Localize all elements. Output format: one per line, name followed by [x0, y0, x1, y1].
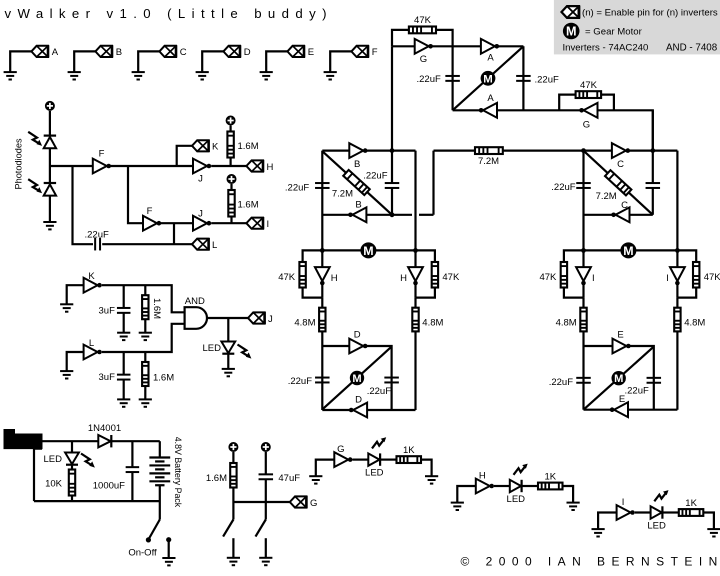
- label 4.8M (x=322.3): [294, 317, 315, 328]
- svg-text:47uF: 47uF: [278, 473, 300, 484]
- photodiode D2: [44, 183, 56, 196]
- photodiode D1: [44, 136, 56, 149]
- wire C mid vertical lower: [652, 188, 654, 215]
- legend inverters text: [563, 42, 649, 53]
- label J1: [198, 174, 203, 185]
- svg-text:F: F: [147, 206, 153, 217]
- svg-text:1.6M: 1.6M: [151, 298, 162, 319]
- wire E top line: [584, 346, 654, 410]
- wire 1K to ground I LED cell: [703, 513, 714, 530]
- title text: [5, 6, 333, 21]
- legend gear motor symbol: [563, 23, 580, 40]
- wire power to resistor 1.6M (I): [230, 184, 232, 190]
- svg-text:1K: 1K: [544, 471, 556, 482]
- wire stub to ground left: [232, 538, 234, 558]
- ground output H LED cell: [567, 503, 580, 510]
- label C2: [621, 200, 628, 211]
- wire ground to inverter I LED cell: [598, 513, 617, 530]
- svg-text:47K: 47K: [580, 80, 598, 91]
- wire D bottom line: [322, 409, 415, 411]
- svg-text:3uF: 3uF: [99, 372, 116, 383]
- enable pin L: [192, 238, 209, 250]
- enable pin B: [95, 45, 112, 57]
- label .22uF (B mid): [363, 171, 387, 182]
- wire 47K loop (677.4): [677, 250, 696, 262]
- LED (I LED cell): [651, 506, 663, 518]
- wire D left vertical: [321, 346, 323, 410]
- inverter C1: [612, 143, 630, 158]
- svg-text:M: M: [363, 244, 373, 258]
- wire C left vertical: [582, 151, 584, 251]
- wire D1 to D2: [49, 148, 51, 183]
- ground for enable E: [260, 72, 273, 79]
- ground for enable F: [324, 72, 337, 79]
- label On-Off: [128, 547, 157, 558]
- wire inverter to LED G LED cell: [353, 459, 369, 461]
- label .22uF (D right): [367, 386, 391, 397]
- capacitor .22uF (D left): [315, 378, 330, 383]
- wire motor rail right: [584, 249, 678, 251]
- label D1: [354, 330, 361, 341]
- motor M (A-block): [481, 71, 496, 86]
- wire to 1.6M K: [144, 285, 146, 295]
- svg-text:7.2M: 7.2M: [332, 189, 353, 200]
- inverter B1: [349, 143, 367, 158]
- inverter I (down, x=677.4): [670, 267, 685, 285]
- wire LED J to ground: [227, 354, 229, 369]
- resistor 47K (branch x=322.3): [299, 262, 305, 288]
- label 1.6M (G): [206, 473, 227, 484]
- resistor 47K (G1 feedback): [409, 27, 436, 34]
- label 3uF (L): [99, 372, 116, 383]
- enable pin K: [192, 140, 209, 152]
- capacitor 1000uF: [126, 467, 139, 472]
- svg-text:On-Off: On-Off: [128, 547, 157, 558]
- svg-text:.22uF: .22uF: [85, 230, 109, 241]
- LED (G LED cell): [368, 453, 380, 465]
- enable pin J: [248, 312, 265, 324]
- wire power to resistor 1.6M (H): [230, 126, 232, 132]
- resistor 4.8M (x=677.4): [674, 308, 680, 332]
- light arrow into D2: [28, 179, 42, 193]
- capacitor .22uF (D right): [384, 378, 399, 383]
- copyright text: [461, 554, 720, 568]
- label .22uF (photodiode): [85, 230, 109, 241]
- label 4.8M (x=677.4): [684, 317, 705, 328]
- wire stub to ground right: [265, 538, 267, 558]
- label 1.6M (K) rotated: [151, 298, 162, 319]
- label B: [116, 47, 122, 58]
- inverter E2 (left-pointing): [610, 402, 628, 417]
- switch On-Off blade: [149, 520, 160, 539]
- label D: [244, 47, 251, 58]
- capacitor 47uF: [259, 474, 274, 479]
- capacitor .22uF (B mid): [385, 183, 400, 188]
- wire rail to inverter (I branch 677.4): [676, 250, 678, 267]
- enable pin D: [223, 45, 240, 57]
- diode 1N4001: [98, 435, 111, 447]
- battery 4.8V pack: [149, 458, 170, 486]
- ground 1.6M K: [139, 333, 152, 340]
- wire 47K loop right (G2): [601, 95, 614, 111]
- svg-text:1N4001: 1N4001: [88, 423, 121, 434]
- ground input G LED cell: [309, 476, 322, 483]
- inverter B2 (left-pointing): [348, 207, 366, 222]
- node dot C left: [581, 148, 586, 153]
- svg-text:J: J: [268, 314, 273, 325]
- svg-text:B: B: [355, 200, 361, 211]
- wire 47K loop bottom (322.3): [303, 288, 323, 298]
- svg-text:(n) = Enable pin for (n) inve: (n) = Enable pin for (n) inverters: [582, 7, 718, 18]
- wire LED to 1K H LED cell: [522, 485, 538, 487]
- svg-text:3uF: 3uF: [99, 305, 116, 316]
- wire LED to 10K: [71, 465, 73, 470]
- wire rail to inverter (H branch 415.5): [414, 250, 416, 267]
- wire branch down to LED (power): [71, 441, 73, 452]
- label .22uF (A left): [417, 74, 441, 85]
- ground for enable B: [68, 72, 81, 79]
- svg-text:M: M: [483, 73, 493, 85]
- light arrow LED J: [238, 345, 252, 359]
- wire B right vertical to rail: [414, 151, 416, 251]
- svg-text:= Gear Motor: = Gear Motor: [585, 26, 643, 37]
- inverter I (I LED cell): [617, 505, 635, 520]
- label 1.6M (I pull): [238, 200, 259, 211]
- wire A-block left vertical: [452, 46, 454, 110]
- label 10K: [45, 479, 63, 490]
- label H (H LED cell): [479, 471, 486, 482]
- ground switch left: [227, 558, 240, 565]
- wire inverter to LED I LED cell: [635, 511, 651, 513]
- svg-text:4.8M: 4.8M: [684, 317, 705, 328]
- label 7.2M (C): [596, 191, 617, 202]
- label B1: [354, 159, 360, 170]
- wire branch down to LED (J): [227, 318, 229, 342]
- ground photodiodes: [43, 222, 56, 229]
- wire D2 to ground: [49, 196, 51, 222]
- svg-text:I: I: [622, 497, 625, 508]
- capacitor 3uF (L): [117, 375, 131, 380]
- label E1: [617, 330, 623, 341]
- enable pin I: [246, 217, 263, 229]
- label E2: [619, 394, 625, 405]
- wire C diagonal: [584, 151, 653, 215]
- label H (x=322.3): [331, 273, 338, 284]
- svg-text:M: M: [614, 373, 623, 385]
- wire B top line: [322, 150, 415, 152]
- wire C mid vertical upper: [652, 151, 654, 183]
- label 1K (H LED cell): [544, 471, 556, 482]
- resistor 47K (branch x=677.4): [693, 262, 699, 288]
- inverter J2: [193, 216, 211, 231]
- wire battery bottom: [159, 485, 161, 519]
- svg-text:.22uF: .22uF: [288, 376, 312, 387]
- resistor 4.8M (x=322.3): [319, 308, 325, 332]
- wire node to 4.8M (583.5): [582, 298, 584, 308]
- label 1000uF: [93, 481, 125, 492]
- wire to enable F: [330, 51, 351, 72]
- inverter D1: [349, 339, 367, 354]
- wire junction down-left to .22uF: [73, 166, 94, 244]
- light arrow into D1: [28, 132, 42, 146]
- label H (x=415.5): [400, 273, 407, 284]
- wire A-block bottom line: [453, 110, 653, 150]
- motor M (E-block): [612, 371, 626, 385]
- wire 47K loop bottom (583.5): [564, 288, 584, 298]
- ground L input: [60, 371, 73, 378]
- wire to enable B: [74, 51, 95, 72]
- ground input I LED cell: [592, 529, 605, 536]
- wire 47K loop bottom (677.4): [677, 288, 696, 298]
- svg-text:7.2M: 7.2M: [596, 191, 617, 202]
- label 1.6M (L): [153, 373, 174, 384]
- wire LED to 1K G LED cell: [381, 459, 397, 461]
- wire power to 47uF: [265, 452, 267, 474]
- wire feed vertical G1 to B: [391, 46, 393, 150]
- svg-text:D: D: [355, 394, 362, 405]
- wire to battery top: [159, 441, 161, 457]
- wire A-block right vertical: [522, 46, 524, 110]
- wire A-block diagonal: [453, 46, 524, 110]
- svg-text:F: F: [372, 47, 378, 58]
- svg-text:47K: 47K: [539, 272, 557, 283]
- svg-text:F: F: [99, 149, 105, 160]
- legend enable-pin symbol: [562, 6, 579, 19]
- wire 47K loop bottom (415.5): [416, 288, 435, 298]
- svg-text:K: K: [212, 142, 219, 153]
- wire to enable D: [202, 51, 223, 72]
- svg-text:G: G: [310, 498, 317, 509]
- LED (H LED cell): [510, 480, 522, 492]
- svg-text:C: C: [617, 159, 624, 170]
- wire 1.6M G down: [232, 488, 234, 503]
- wire rail to inverter (I branch 583.5): [582, 250, 584, 267]
- resistor 47K (branch x=415.5): [432, 262, 438, 288]
- resistor 1.6M (L): [142, 362, 148, 386]
- label A2: [487, 93, 494, 104]
- power symbol photodiodes: [45, 101, 55, 111]
- label .22uF (E right): [625, 385, 649, 396]
- svg-text:1K: 1K: [403, 445, 415, 456]
- wire 47K loop (322.3): [303, 250, 323, 262]
- label L inv: [89, 338, 94, 349]
- label C1: [617, 159, 624, 170]
- resistor 7.2M (B diagonal): [343, 170, 369, 195]
- wire to enable G: [233, 501, 289, 503]
- svg-text:C: C: [180, 47, 187, 58]
- wire to enable E: [266, 51, 287, 72]
- svg-text:I: I: [666, 273, 669, 284]
- LED (power indicator): [65, 453, 79, 465]
- wire left return: [34, 449, 42, 502]
- wire B diagonal: [322, 151, 392, 215]
- ground switch right: [259, 558, 272, 565]
- light arrow (G LED cell): [372, 437, 386, 448]
- wire rail to inverter (H branch 322.3): [321, 250, 323, 267]
- svg-text:J: J: [198, 209, 203, 220]
- svg-text:J: J: [198, 174, 203, 185]
- wire diode to battery: [111, 440, 159, 442]
- inverter K: [84, 278, 102, 293]
- svg-text:4.8M: 4.8M: [422, 317, 443, 328]
- inverter J1: [193, 159, 211, 174]
- label 1K (I LED cell): [685, 498, 697, 509]
- label .22uF (B left): [285, 182, 309, 193]
- svg-text:A: A: [487, 53, 494, 64]
- inverter F1: [93, 159, 111, 174]
- svg-text:I: I: [592, 273, 595, 284]
- switch contact dot 2: [166, 537, 171, 542]
- label LED (I LED cell): [647, 521, 666, 532]
- inverter E1: [613, 339, 631, 354]
- wire inverter to node (415.5): [414, 285, 416, 298]
- wire 47K loop (583.5): [564, 250, 584, 262]
- wire J1 output to enable H: [211, 165, 246, 167]
- svg-text:G: G: [583, 120, 590, 131]
- inverter A2 (left-pointing): [479, 103, 497, 118]
- capacitor 3uF (K): [117, 308, 131, 313]
- wire switch stub left: [232, 502, 234, 520]
- svg-text:7.2M: 7.2M: [478, 156, 499, 167]
- svg-text:M: M: [566, 25, 577, 39]
- svg-text:.22uF: .22uF: [417, 74, 441, 85]
- power symbol (47uF): [261, 442, 271, 452]
- motor M (right rail): [620, 242, 636, 258]
- label K: [212, 142, 219, 153]
- svg-text:E: E: [617, 330, 623, 341]
- svg-text:47K: 47K: [278, 272, 296, 283]
- motor M (left rail): [360, 242, 376, 258]
- wire 1K to ground H LED cell: [563, 486, 574, 503]
- wire 1000uF to bottom rail: [131, 472, 133, 501]
- inverter G (G LED cell): [334, 452, 352, 467]
- svg-text:4.8V Battery Pack: 4.8V Battery Pack: [173, 437, 183, 508]
- wire G1 out to A1: [431, 45, 481, 47]
- label D2: [355, 394, 362, 405]
- wire 3uF K to ground: [123, 313, 125, 333]
- wire B left vertical: [321, 151, 323, 251]
- wire inverter to node (322.3): [321, 285, 323, 298]
- label I (x=583.5): [592, 273, 595, 284]
- power symbol above 1.6M (H): [226, 116, 236, 126]
- wire node to 4.8M (415.5): [414, 298, 416, 308]
- capacitor .22uF (photodiode): [95, 238, 100, 251]
- svg-text:H: H: [331, 273, 338, 284]
- label .22uF (D left): [288, 376, 312, 387]
- label I (I LED cell): [622, 497, 625, 508]
- label J out: [268, 314, 273, 325]
- light arrow (H LED cell): [514, 464, 528, 475]
- legend AND text: [666, 42, 718, 53]
- label K inv: [88, 271, 95, 282]
- ground for enable A: [4, 72, 17, 79]
- label L: [212, 240, 217, 251]
- wire D diagonal: [322, 347, 391, 410]
- inverter H (down, x=322.3): [315, 267, 330, 285]
- svg-text:1.6M: 1.6M: [238, 141, 259, 152]
- label 1N4001: [88, 423, 121, 434]
- svg-text:H: H: [400, 273, 407, 284]
- wire inverter to LED H LED cell: [494, 485, 510, 487]
- resistor 4.8M (x=583.5): [580, 308, 586, 332]
- wire switch to ground: [168, 542, 170, 559]
- svg-text:G: G: [420, 54, 427, 65]
- wire B bottom line left: [322, 214, 412, 216]
- wire branch up to enable K: [177, 146, 192, 166]
- wire B mid vertical upper: [391, 151, 393, 183]
- label 1.6M (H pull): [238, 141, 259, 152]
- wire D top line: [322, 346, 391, 410]
- light arrow (I LED cell): [654, 490, 668, 501]
- wire C bottom line: [584, 214, 653, 216]
- wire switch stub right: [265, 502, 267, 520]
- node dot rail left-2: [413, 248, 418, 253]
- label .22uF (E left): [549, 377, 573, 388]
- label A: [52, 47, 59, 58]
- svg-text:.22uF: .22uF: [367, 386, 391, 397]
- DC connector blob: [4, 430, 42, 449]
- wire 4.8M to D top: [321, 331, 323, 346]
- power symbol (1.6M G): [228, 442, 238, 452]
- label 47K (x=677.4): [704, 272, 720, 283]
- wire node PD to inverter F1: [50, 165, 93, 167]
- wire 7.2M line right: [503, 150, 584, 152]
- ground 3uF K: [117, 333, 130, 340]
- svg-text:E: E: [619, 394, 625, 405]
- svg-text:vWalker v1.0 (Little buddy): vWalker v1.0 (Little buddy): [5, 6, 333, 21]
- node dot B top: [390, 148, 395, 153]
- LED (J indicator): [221, 342, 235, 354]
- svg-text:4.8M: 4.8M: [294, 317, 315, 328]
- wire to 3uF cap L: [123, 352, 125, 375]
- inverter D2 (left-pointing): [349, 403, 367, 418]
- resistor 1.6M (H pull): [227, 132, 233, 158]
- svg-text:B: B: [354, 159, 360, 170]
- svg-text:AND: AND: [185, 296, 205, 307]
- svg-text:.22uF: .22uF: [285, 182, 309, 193]
- wire branch down to 1000uF: [131, 441, 133, 467]
- label 7.2M (coupling): [478, 156, 499, 167]
- svg-text:B: B: [116, 47, 122, 58]
- svg-text:1.6M: 1.6M: [206, 473, 227, 484]
- wire node to 4.8M (322.3): [321, 298, 323, 308]
- label I: [267, 219, 270, 230]
- svg-text:M: M: [623, 244, 633, 258]
- capacitor .22uF (A left): [445, 76, 460, 81]
- inverter I (down, x=583.5): [576, 267, 591, 285]
- label I (x=677.4): [666, 273, 669, 284]
- svg-text:.22uF: .22uF: [549, 377, 573, 388]
- label A1: [487, 53, 494, 64]
- wire branch down to F2: [128, 166, 143, 223]
- wire inverter to node (677.4): [676, 285, 678, 298]
- wire power to photodiode D1: [49, 111, 51, 136]
- wire top power rail: [42, 440, 98, 442]
- wire B bottom line right: [419, 214, 434, 216]
- wire AND output to enable J: [207, 317, 248, 319]
- label J2: [198, 209, 203, 220]
- label G1: [420, 54, 427, 65]
- label .22uF (C left): [551, 182, 575, 193]
- inverter H (down, x=415.5): [408, 267, 423, 285]
- label 47K (x=415.5): [442, 272, 460, 283]
- svg-text:M: M: [352, 373, 361, 385]
- svg-text:.22uF: .22uF: [551, 182, 575, 193]
- inverter A1: [481, 39, 499, 54]
- ground output I LED cell: [707, 529, 720, 536]
- svg-text:A: A: [487, 93, 494, 104]
- wire A1 out to right node: [497, 45, 524, 47]
